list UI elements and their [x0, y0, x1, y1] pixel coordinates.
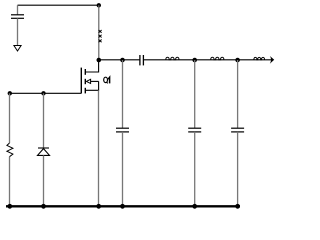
capacitor C1 (input) [11, 15, 24, 18]
wire input cap top lead [17, 5, 19, 15]
node diode tap [41, 91, 45, 95]
node drain junction [97, 58, 102, 63]
node top corner [97, 3, 101, 7]
capacitor C4 [188, 128, 201, 132]
node rail source [96, 204, 101, 209]
transistor Q1 (NMOS) [81, 60, 98, 93]
node rail diode [41, 204, 46, 209]
wire resistor bottom lead [9, 157, 11, 206]
wire drain node to series cap [99, 59, 140, 61]
wire branch-1 bottom lead [122, 132, 124, 206]
drain stub [85, 60, 98, 72]
wire input cap bottom lead [17, 18, 19, 45]
inductor L1 (vertical) [99, 30, 102, 42]
node rail branch-3 [235, 204, 240, 209]
ground [14, 46, 21, 52]
output arrow [270, 56, 274, 64]
wire branch-1 top lead [122, 60, 124, 128]
inductor L4 [254, 57, 265, 59]
wire branch-2 bottom lead [194, 132, 196, 206]
node branch 2 [192, 58, 197, 63]
channel segment bottom [84, 88, 86, 94]
wire branch-3 bottom lead [237, 132, 239, 206]
node branch 3 [235, 58, 240, 63]
node rail resistor [7, 204, 12, 209]
wire diode top lead [43, 93, 45, 148]
node rail branch-2 [192, 204, 197, 209]
gate bar [80, 68, 82, 94]
wire diode bottom lead [43, 155, 45, 206]
source stub [85, 81, 98, 90]
node branch 1 [120, 58, 125, 63]
resistor R1 [7, 143, 13, 157]
inductor L2 [166, 57, 179, 60]
wire branch-3 top lead [237, 60, 239, 128]
wire branch-2 top lead [194, 60, 196, 128]
channel segment middle [84, 79, 86, 84]
node rail branch-1 [120, 204, 125, 209]
capacitor C2 (series) [140, 55, 144, 65]
capacitor C3 [116, 128, 129, 132]
wire ground rail [6, 205, 240, 207]
wire source to rail [98, 90, 100, 206]
label Q1 [104, 77, 110, 83]
channel segment top [84, 69, 86, 75]
inductor L3 [211, 57, 224, 60]
wire cap to output arrow [143, 59, 271, 61]
capacitor C5 [231, 128, 244, 132]
wire top rail [18, 4, 99, 6]
wire resistor top lead [9, 93, 11, 143]
body stub with arrow [90, 80, 98, 82]
wire gate lead [10, 92, 82, 94]
diode D1 [38, 148, 50, 155]
wire top down to drain node [98, 5, 100, 60]
node gate-left corner [8, 91, 12, 95]
